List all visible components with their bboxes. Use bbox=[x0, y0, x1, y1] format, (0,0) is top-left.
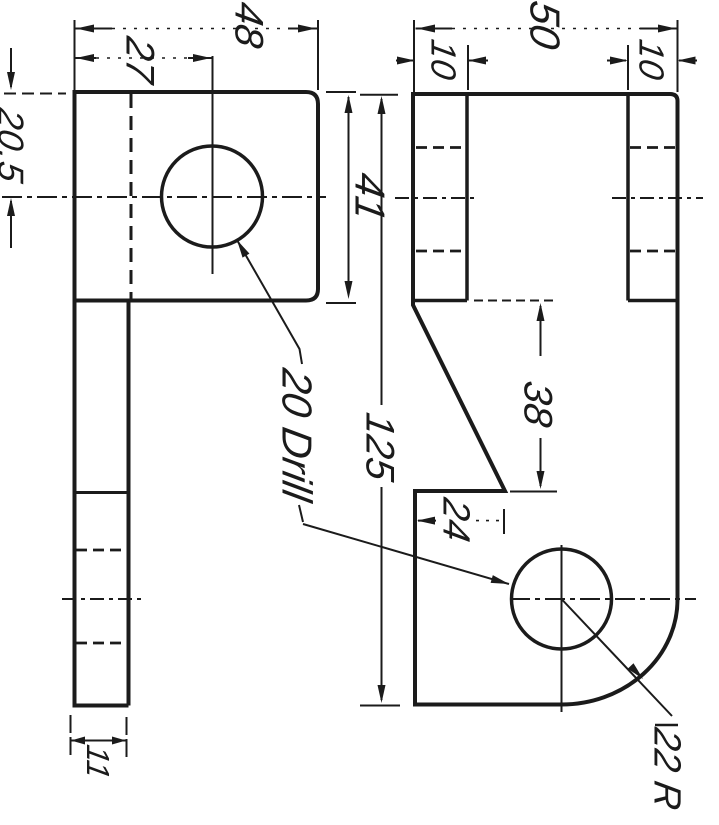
dimension 11 line bbox=[71, 740, 127, 742]
dimension 10 left extension line bbox=[467, 45, 469, 90]
dimension 10 left lines bbox=[396, 60, 488, 62]
dimension 50 extension lines bbox=[414, 20, 678, 92]
dimension 41 extension lines bbox=[326, 92, 356, 303]
svg-text:48: 48 bbox=[227, 0, 272, 52]
svg-text:125: 125 bbox=[358, 410, 403, 485]
left view outline bbox=[75, 92, 319, 706]
dimension 41 line bbox=[348, 97, 350, 292]
dimension 38 line bbox=[540, 306, 542, 486]
svg-text:20.5: 20.5 bbox=[0, 104, 31, 186]
dimension 125 extension lines bbox=[360, 95, 400, 706]
svg-text:38: 38 bbox=[516, 378, 561, 431]
svg-text:22 R: 22 R bbox=[646, 724, 689, 813]
svg-text:11: 11 bbox=[80, 742, 116, 782]
left view hidden line bbox=[130, 94, 133, 299]
leader to right view circle bbox=[303, 524, 509, 584]
right view left lug hidden lines bbox=[416, 148, 466, 252]
dimension 24 end tick bbox=[503, 509, 505, 534]
right view left lug inner edge bbox=[413, 94, 467, 301]
right view lug centerline left bbox=[395, 197, 478, 199]
right view drill circle bbox=[512, 549, 612, 649]
left view bar hidden line upper bbox=[76, 549, 127, 552]
svg-text:41: 41 bbox=[347, 170, 394, 225]
dimension 38 extension line bottom bbox=[510, 491, 557, 493]
svg-text:20 Drill: 20 Drill bbox=[274, 365, 321, 506]
leader 22R radius bbox=[562, 599, 673, 716]
left view bar step line bbox=[75, 491, 129, 494]
dimension 10 right lines bbox=[607, 60, 697, 62]
right view circle vertical centerline bbox=[561, 545, 563, 712]
dimension 20.5 extension line bbox=[4, 93, 66, 95]
svg-text:24: 24 bbox=[435, 494, 478, 545]
dimension 38 extension line top bbox=[474, 300, 557, 302]
dimension 10 right extension line bbox=[627, 45, 629, 90]
dimension 11 extension lines bbox=[71, 715, 127, 757]
svg-text:50: 50 bbox=[522, 0, 569, 53]
leader elbow below label bbox=[299, 505, 303, 522]
dimension 20.5 line top bbox=[10, 48, 12, 87]
right view lug centerline right bbox=[612, 197, 703, 199]
left view bar centerline bbox=[62, 598, 141, 600]
leader to left view circle bbox=[237, 240, 302, 364]
svg-text:10: 10 bbox=[632, 37, 671, 83]
dimension 48 extension lines bbox=[75, 20, 319, 90]
dimension 48 line bbox=[75, 28, 113, 30]
right view right lug inner edge bbox=[628, 94, 678, 301]
dimension 50 line bbox=[416, 28, 453, 30]
left view circle vertical centerline bbox=[212, 56, 214, 274]
dimension 27 line bbox=[75, 57, 97, 59]
left view circle horizontal centerline bbox=[2, 196, 326, 198]
dimension 24 line bbox=[418, 520, 436, 522]
dimension 125 line bbox=[381, 99, 383, 700]
left view drill circle bbox=[162, 146, 263, 247]
right view outline bbox=[413, 94, 678, 705]
left view bar hidden line lower bbox=[76, 642, 127, 645]
right view right lug hidden lines bbox=[630, 148, 676, 252]
label 22R hyphen bbox=[655, 724, 678, 727]
svg-text:10: 10 bbox=[424, 37, 463, 83]
dimension 20.5 line bottom bbox=[10, 201, 12, 248]
right view circle horizontal centerline bbox=[510, 598, 696, 600]
